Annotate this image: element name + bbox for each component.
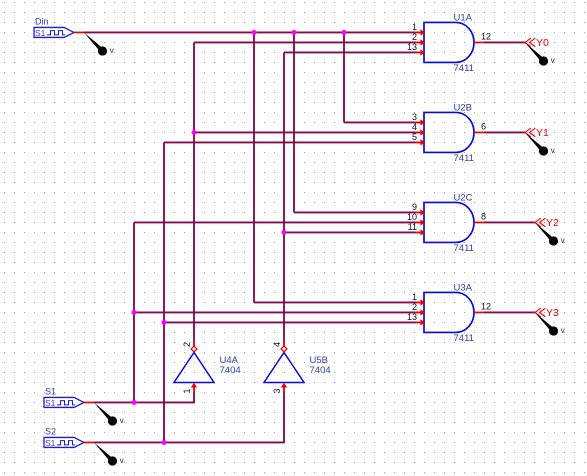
label U2C bbox=[454, 192, 473, 203]
value label 7411 of U3A bbox=[454, 333, 474, 344]
label Y2 bbox=[546, 217, 559, 229]
label v of probe P7 on Y3 bbox=[561, 326, 565, 335]
U1A pin number 1 bbox=[412, 22, 417, 32]
U3A pin number 1 bbox=[412, 292, 417, 302]
svg-text:9: 9 bbox=[412, 202, 417, 212]
U5B pin number 4 bbox=[272, 342, 282, 347]
label S2 bbox=[45, 426, 56, 436]
probe P7 on Y3 bbox=[535, 312, 558, 335]
U2B pin number 6 bbox=[481, 121, 486, 131]
U1A pin number 13 bbox=[407, 42, 417, 52]
svg-text:U2B: U2B bbox=[454, 102, 472, 113]
U3A input pin 1 arrow bbox=[416, 299, 426, 305]
label v of probe P2 on S1 bbox=[120, 416, 124, 425]
junction Din net (254,32) bbox=[252, 30, 257, 35]
label v of probe P6 on Y2 bbox=[561, 236, 565, 245]
probe P1 on Din bbox=[84, 32, 107, 55]
signal source V2 symbol bbox=[44, 397, 84, 407]
wire U4A input stub bbox=[193, 392, 195, 403]
junction Din net (294,32) bbox=[292, 30, 297, 35]
wire riser U4A output bbox=[193, 42, 195, 341]
svg-text:v: v bbox=[120, 456, 124, 465]
svg-text:v: v bbox=[120, 416, 124, 425]
label Y0 bbox=[536, 37, 549, 49]
svg-text:3: 3 bbox=[272, 388, 282, 393]
svg-text:Din: Din bbox=[35, 16, 49, 26]
value label 7411 of U2B bbox=[454, 153, 474, 164]
wire S2 branch to U3A pin 13 bbox=[164, 321, 416, 323]
svg-text:1: 1 bbox=[182, 388, 192, 393]
U1A pin number 12 bbox=[481, 31, 491, 41]
U4A inversion bubble (diamond) bbox=[191, 346, 197, 352]
wire S1 branch to U2C pin 10 bbox=[134, 221, 416, 223]
junction S1 net (134,402) bbox=[132, 400, 137, 405]
svg-text:1: 1 bbox=[412, 22, 417, 32]
wire riser S1 branch x=134 bbox=[133, 222, 135, 402]
U5B inversion bubble (diamond) bbox=[281, 346, 287, 352]
junction S1 net (134,312) bbox=[132, 310, 137, 315]
svg-text:7411: 7411 bbox=[454, 243, 474, 254]
output connector Y2 bbox=[535, 218, 545, 227]
value label 7404 of U5B bbox=[310, 365, 331, 376]
pin of source V2 bbox=[84, 401, 94, 403]
svg-text:7411: 7411 bbox=[454, 333, 474, 344]
svg-text:12: 12 bbox=[481, 31, 491, 41]
U4A pin number 1 bbox=[182, 388, 192, 393]
svg-text:2: 2 bbox=[412, 32, 417, 42]
svg-text:U3A: U3A bbox=[454, 282, 473, 293]
wire U4A output to U1A pin 2 bbox=[194, 41, 416, 43]
output connector Y0 bbox=[525, 38, 535, 47]
U3A pin number 2 bbox=[412, 302, 417, 312]
label v of probe P4 on Y0 bbox=[551, 56, 555, 65]
wire Din to U1A pin 1 bbox=[84, 31, 416, 33]
wire S1 branch to U3A pin 2 bbox=[134, 311, 416, 313]
U2C input pin 11 arrow bbox=[416, 229, 426, 235]
svg-text:11: 11 bbox=[408, 222, 417, 232]
svg-text:S2: S2 bbox=[45, 426, 56, 436]
svg-text:Y0: Y0 bbox=[536, 37, 549, 49]
wire S2 branch to U2B pin 5 bbox=[164, 141, 416, 143]
U2B pin number 3 bbox=[412, 112, 417, 122]
U1A input pin 13 arrow bbox=[416, 49, 426, 55]
U3A input pin 13 arrow bbox=[416, 319, 426, 325]
AND gate U1A body bbox=[424, 22, 474, 62]
U4A output pin stub bbox=[193, 341, 195, 346]
label v of probe P1 on Din bbox=[110, 46, 114, 55]
AND gate U2C body bbox=[424, 202, 474, 242]
U5B input pin arrow bbox=[281, 383, 287, 393]
U3A output pin 12 bbox=[474, 311, 484, 313]
junction Din net (344,32) bbox=[342, 30, 347, 35]
inverter U5B body bbox=[264, 352, 304, 382]
label U5B bbox=[310, 355, 328, 366]
svg-text:Y1: Y1 bbox=[536, 127, 549, 139]
value label 7411 of U2C bbox=[454, 243, 474, 254]
svg-text:Y2: Y2 bbox=[546, 217, 559, 229]
U1A input pin 2 arrow bbox=[416, 39, 426, 45]
wire U5B output to U1A pin 13 bbox=[284, 51, 416, 53]
junction S2 net (164,322) bbox=[162, 320, 167, 325]
wire U2B output to Y1 bbox=[484, 131, 525, 133]
svg-text:4: 4 bbox=[272, 342, 282, 347]
wire Din branch to U2B pin 3 bbox=[344, 121, 416, 123]
label Y1 bbox=[536, 127, 549, 139]
wire U5B input stub bbox=[283, 392, 285, 443]
label Y3 bbox=[546, 307, 559, 319]
signal source V3 symbol bbox=[44, 437, 84, 447]
svg-text:Y3: Y3 bbox=[546, 307, 559, 319]
wire riser U5B output bbox=[283, 52, 285, 341]
U4A pin number 2 bbox=[182, 342, 192, 347]
U2C input pin 10 arrow bbox=[416, 219, 426, 225]
U3A pin number 13 bbox=[407, 312, 417, 322]
svg-text:5: 5 bbox=[412, 132, 417, 142]
label Din bbox=[35, 16, 49, 26]
U1A pin number 2 bbox=[412, 32, 417, 42]
U2C pin number 9 bbox=[412, 202, 417, 212]
svg-text:4: 4 bbox=[412, 122, 417, 132]
svg-text:v: v bbox=[110, 46, 114, 55]
wire Din branch to U3A pin 1 bbox=[254, 301, 416, 303]
svg-text:13: 13 bbox=[407, 42, 417, 52]
label U1A bbox=[454, 12, 473, 23]
svg-text:12: 12 bbox=[481, 301, 491, 311]
wire Din branch to U2C pin 9 bbox=[294, 211, 416, 213]
svg-text:S1: S1 bbox=[35, 28, 46, 38]
wire riser S2 branch x=164 bbox=[163, 142, 165, 442]
label v of probe P5 on Y1 bbox=[551, 146, 555, 155]
svg-text:v: v bbox=[561, 326, 565, 335]
U2C pin number 11 bbox=[408, 222, 417, 232]
svg-text:2: 2 bbox=[412, 302, 417, 312]
value label 7404 of U4A bbox=[220, 365, 241, 376]
svg-text:7404: 7404 bbox=[310, 365, 331, 376]
svg-text:7411: 7411 bbox=[454, 153, 474, 164]
wire U2C output to Y2 bbox=[484, 221, 535, 223]
label U3A bbox=[454, 282, 473, 293]
U2B pin number 5 bbox=[412, 132, 417, 142]
wire U1A output to Y0 bbox=[484, 41, 525, 43]
probe P4 on Y0 bbox=[525, 42, 548, 65]
svg-text:v: v bbox=[551, 56, 555, 65]
svg-text:v: v bbox=[561, 236, 565, 245]
wire U4A output branch to U2B pin 4 bbox=[194, 131, 416, 133]
wire riser Din branch x=294 bbox=[293, 32, 295, 212]
U1A output pin 12 bbox=[474, 41, 484, 43]
U3A input pin 2 arrow bbox=[416, 309, 426, 315]
probe P3 on S2 bbox=[94, 442, 117, 465]
svg-text:6: 6 bbox=[481, 121, 486, 131]
svg-text:7411: 7411 bbox=[454, 63, 474, 74]
svg-text:S1: S1 bbox=[45, 398, 56, 408]
AND gate U3A body bbox=[424, 292, 474, 332]
svg-text:U1A: U1A bbox=[454, 12, 473, 23]
U2C input pin 9 arrow bbox=[416, 209, 426, 215]
label U4A bbox=[220, 355, 239, 366]
output connector Y1 bbox=[525, 128, 535, 137]
svg-text:S1: S1 bbox=[45, 438, 56, 448]
label v of probe P3 on S2 bbox=[120, 456, 124, 465]
wire S1 to U4A input bbox=[94, 401, 194, 403]
U5B output pin stub bbox=[283, 341, 285, 346]
wire U5B output branch to U2C pin 11 bbox=[284, 231, 416, 233]
junction S2 net (164,442) bbox=[162, 440, 167, 445]
wire U3A output to Y3 bbox=[484, 311, 535, 313]
value label 7411 of U1A bbox=[454, 63, 474, 74]
probe P5 on Y1 bbox=[525, 132, 548, 155]
svg-text:2: 2 bbox=[182, 342, 192, 347]
wire S2 to U5B input bbox=[94, 441, 284, 443]
U2C pin number 10 bbox=[407, 212, 417, 222]
svg-text:1: 1 bbox=[412, 292, 417, 302]
AND gate U2B body bbox=[424, 112, 474, 152]
U2B input pin 5 arrow bbox=[416, 139, 426, 145]
svg-text:8: 8 bbox=[481, 211, 486, 221]
svg-text:S1: S1 bbox=[45, 386, 56, 396]
U5B pin number 3 bbox=[272, 388, 282, 393]
label U2B bbox=[454, 102, 472, 113]
U2B input pin 4 arrow bbox=[416, 129, 426, 135]
label S1 bbox=[45, 386, 56, 396]
probe P2 on S1 bbox=[94, 402, 117, 425]
U2B output pin 6 bbox=[474, 131, 484, 133]
svg-text:3: 3 bbox=[412, 112, 417, 122]
U4A input pin arrow bbox=[191, 383, 197, 393]
U1A input pin 1 arrow bbox=[416, 29, 426, 35]
svg-text:13: 13 bbox=[407, 312, 417, 322]
output connector Y3 bbox=[535, 308, 545, 317]
svg-text:10: 10 bbox=[407, 212, 417, 222]
inverter U4A body bbox=[174, 352, 214, 382]
wire riser Din branch x=344 bbox=[343, 32, 345, 122]
svg-text:U2C: U2C bbox=[454, 192, 473, 203]
signal source V1 symbol bbox=[34, 27, 74, 37]
probe P6 on Y2 bbox=[535, 222, 558, 245]
pin of source V3 bbox=[84, 441, 94, 443]
junction U5B out net (284,232) bbox=[282, 230, 287, 235]
U2B pin number 4 bbox=[412, 122, 417, 132]
pin of source V1 bbox=[74, 31, 84, 33]
U3A pin number 12 bbox=[481, 301, 491, 311]
U2C pin number 8 bbox=[481, 211, 486, 221]
U2C output pin 8 bbox=[474, 221, 484, 223]
svg-text:v: v bbox=[551, 146, 555, 155]
svg-text:7404: 7404 bbox=[220, 365, 241, 376]
U2B input pin 3 arrow bbox=[416, 119, 426, 125]
wire riser Din branch x=254 bbox=[253, 32, 255, 302]
junction U4A out net (194,132) bbox=[192, 130, 197, 135]
